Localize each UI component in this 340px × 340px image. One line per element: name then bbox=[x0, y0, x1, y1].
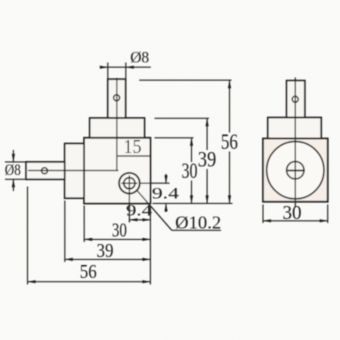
dim left diameter 8: extension lines bbox=[5, 162, 26, 179]
dim 9.4 vertical beside boss: line and outside arrows bbox=[164, 174, 167, 212]
bottom dims: extension lines bbox=[28, 187, 151, 285]
svg-text:9.4: 9.4 bbox=[152, 185, 179, 202]
dim right vertical 39: dimension line bbox=[206, 118, 209, 203]
dim bottom 56: dimension line bbox=[28, 280, 151, 283]
dim right vertical 30: text bbox=[182, 158, 198, 183]
right view: center dash bbox=[286, 170, 305, 172]
left view: flange bbox=[90, 118, 145, 138]
dim bottom 30: dimension line bbox=[84, 238, 150, 241]
svg-text:39: 39 bbox=[198, 146, 217, 171]
right view: flange bbox=[268, 118, 321, 139]
svg-text:9.4: 9.4 bbox=[126, 203, 152, 220]
left view: boss crosshair bbox=[121, 175, 137, 191]
leader text diameter 10.2 bbox=[175, 212, 221, 232]
svg-text:Ø8: Ø8 bbox=[130, 50, 149, 67]
left view: top shaft (input shaft) bbox=[108, 79, 126, 118]
svg-text:56: 56 bbox=[221, 129, 238, 154]
dim right view 30: extension lines bbox=[263, 205, 328, 224]
left view: main body bbox=[84, 138, 150, 204]
dim right vertical 56: text bbox=[221, 129, 238, 154]
leader line for diameter 10.2 bbox=[137, 191, 221, 231]
svg-text:56: 56 bbox=[80, 261, 97, 283]
right view: square body (coil face) bbox=[263, 139, 328, 202]
left view: boss center vertical line down to 9.4 dim bbox=[128, 191, 130, 222]
label 15 bbox=[124, 136, 142, 158]
dim bottom 56: text bbox=[80, 261, 97, 283]
dim right view 30: text bbox=[283, 202, 302, 224]
svg-text:39: 39 bbox=[97, 240, 114, 262]
dim 9.4 horizontal below boss: dimension line with arrows bbox=[129, 218, 150, 221]
right view: top shaft bbox=[287, 81, 305, 118]
left view: vertical centerline of top shaft bbox=[116, 78, 118, 171]
extension line from flange top to 39 dim bbox=[155, 117, 210, 119]
extension line from body top to 30 dim bbox=[155, 137, 194, 139]
right view: small center circle bbox=[287, 162, 304, 179]
left view: left shaft pin hole bbox=[42, 168, 48, 174]
left view: horizontal centerline of left shaft bbox=[28, 170, 118, 172]
right view: big circle bbox=[267, 142, 324, 199]
right view: vertical centerline bbox=[294, 78, 296, 208]
dim 9.4 vertical beside boss: text bbox=[152, 185, 179, 202]
left view: left shaft bbox=[26, 162, 65, 179]
dim bottom 30: text bbox=[112, 220, 127, 242]
svg-text:Ø8: Ø8 bbox=[5, 162, 21, 179]
dim left diameter 8: text bbox=[5, 162, 21, 179]
dim top diameter 8: text bbox=[130, 50, 149, 67]
svg-text:15: 15 bbox=[124, 136, 142, 158]
dim right vertical 39: text bbox=[198, 146, 217, 171]
dim bottom 39: dimension line bbox=[65, 258, 151, 261]
svg-text:30: 30 bbox=[283, 202, 302, 224]
right view: top shaft pin hole bbox=[292, 96, 298, 102]
extension line from body bottom to right bbox=[153, 202, 233, 204]
left view: boss center horizontal extension to right bbox=[140, 182, 170, 184]
dim bottom 39: text bbox=[97, 240, 114, 262]
dim right vertical 56: dimension line bbox=[228, 80, 231, 203]
left view: boss inner circle bbox=[124, 178, 135, 189]
left view: side step block bbox=[65, 144, 84, 199]
svg-text:Ø10.2: Ø10.2 bbox=[175, 212, 221, 232]
dim top diameter 8: extension lines bbox=[108, 63, 126, 79]
svg-text:30: 30 bbox=[182, 158, 198, 183]
left view: boss outer circle bbox=[119, 173, 140, 194]
left view: 15 cell divider lines bbox=[117, 138, 150, 156]
dim 9.4 horizontal below boss: text bbox=[126, 203, 152, 220]
svg-text:30: 30 bbox=[112, 220, 127, 242]
dim right vertical 30: dimension line bbox=[190, 138, 193, 204]
dim top diameter 8: dimension line with outside arrows bbox=[100, 66, 151, 69]
dim left diameter 8: dimension line with outside arrows bbox=[12, 150, 15, 191]
dim right view 30: dimension line bbox=[263, 219, 328, 222]
extension line from shaft top to 56 dim bbox=[139, 79, 231, 81]
left view: top shaft pin hole bbox=[114, 95, 120, 101]
